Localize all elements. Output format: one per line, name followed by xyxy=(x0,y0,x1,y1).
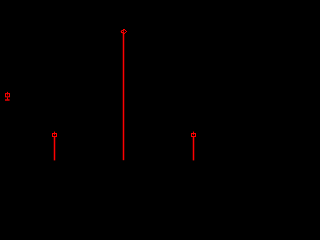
port P3 (bottom-right, box with arrow) xyxy=(192,132,196,137)
port P2 (bottom-left, box with arrow) xyxy=(53,132,57,137)
port P1 (left, box with arrow on bar) xyxy=(5,92,10,101)
power port VCC (square + diamond glyph) xyxy=(120,29,127,34)
wire net VCC (central vertical) xyxy=(123,34,125,161)
wire from P3 xyxy=(193,137,195,160)
wire from P2 xyxy=(54,137,56,160)
